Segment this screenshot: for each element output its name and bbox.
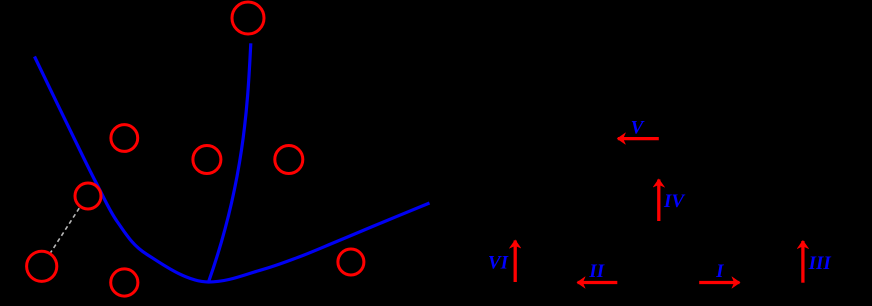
arrow II bbox=[578, 281, 618, 284]
arrow III bbox=[801, 241, 804, 283]
steep branch curve bbox=[209, 43, 251, 282]
svg-text:IV: IV bbox=[663, 191, 685, 212]
dashed connector line bbox=[51, 208, 80, 252]
circle on curve bbox=[75, 183, 101, 209]
circle mid-right bbox=[275, 146, 303, 174]
svg-text:V: V bbox=[631, 118, 645, 139]
svg-text:I: I bbox=[715, 261, 724, 282]
arrow I bbox=[699, 281, 739, 284]
circle upper-left bbox=[111, 125, 138, 152]
circle bottom-right bbox=[338, 249, 364, 275]
arrow VI bbox=[514, 241, 517, 283]
circle mid-left bbox=[193, 146, 221, 174]
circle top bbox=[232, 2, 264, 34]
svg-text:III: III bbox=[808, 253, 832, 274]
arrow V bbox=[618, 137, 659, 140]
circle bottom-middle bbox=[111, 269, 138, 296]
circle lower-left bbox=[27, 251, 57, 281]
main trajectory curve bbox=[35, 57, 430, 283]
svg-text:II: II bbox=[588, 261, 604, 282]
arrow IV bbox=[657, 180, 660, 222]
svg-text:VI: VI bbox=[488, 253, 509, 274]
